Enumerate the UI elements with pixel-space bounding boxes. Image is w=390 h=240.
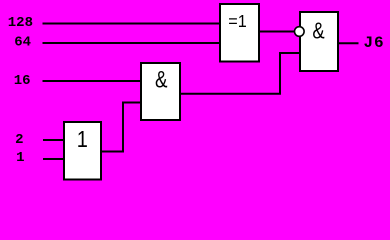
wire AND1 output to AND2 second input bbox=[180, 53, 300, 94]
wire buffer output to AND1 second input bbox=[100, 103, 142, 152]
buffer gate 1 bbox=[64, 122, 101, 180]
svg-text:&: & bbox=[312, 19, 324, 44]
svg-text:128: 128 bbox=[8, 15, 33, 31]
wire XOR output to inverted input bbox=[258, 31, 295, 33]
svg-text:64: 64 bbox=[14, 35, 31, 51]
svg-text:&: & bbox=[155, 67, 168, 94]
svg-text:=1: =1 bbox=[228, 11, 246, 31]
wire net 128 bbox=[43, 23, 222, 25]
AND gate (middle) bbox=[141, 63, 180, 120]
wire net 16 bbox=[43, 80, 143, 82]
svg-text:16: 16 bbox=[14, 73, 31, 89]
XOR gate =1 bbox=[220, 4, 259, 62]
svg-text:J6: J6 bbox=[364, 34, 385, 52]
svg-text:2: 2 bbox=[15, 132, 23, 148]
wire net 2 bbox=[43, 139, 66, 141]
svg-text:1: 1 bbox=[77, 125, 88, 152]
wire net 1 bbox=[43, 158, 66, 160]
svg-text:1: 1 bbox=[16, 150, 24, 166]
wire output J6 bbox=[337, 42, 359, 44]
AND gate (right, output) bbox=[300, 12, 338, 71]
wire net 64 bbox=[43, 42, 222, 44]
inverted input bubble bbox=[295, 27, 305, 37]
